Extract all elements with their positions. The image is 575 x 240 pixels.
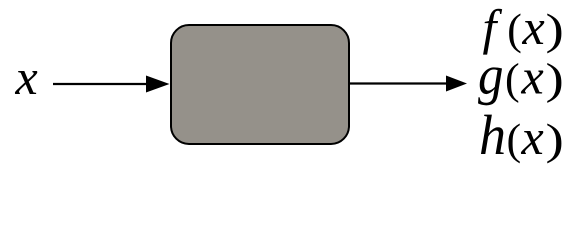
function box bbox=[171, 25, 349, 144]
label f(x): glyph f bbox=[483, 9, 502, 55]
label f(x): glyph x bbox=[522, 21, 544, 44]
label g(x): close paren bbox=[547, 63, 561, 103]
node x input label bbox=[15, 71, 37, 94]
label g(x): open paren bbox=[507, 63, 518, 103]
label f(x): open paren bbox=[509, 13, 520, 53]
label h(x): open paren bbox=[508, 123, 519, 163]
wire input arrow shaft bbox=[53, 83, 150, 85]
label h(x): close paren bbox=[547, 123, 561, 163]
label g(x): glyph g bbox=[478, 67, 502, 105]
output arrowhead bbox=[446, 76, 467, 92]
label f(x): close paren bbox=[547, 13, 561, 53]
label h(x): glyph x bbox=[521, 131, 543, 154]
input arrowhead bbox=[146, 76, 170, 93]
label h(x): glyph h bbox=[481, 115, 504, 154]
wire output arrow shaft bbox=[350, 82, 450, 84]
label g(x): glyph x bbox=[521, 71, 543, 94]
